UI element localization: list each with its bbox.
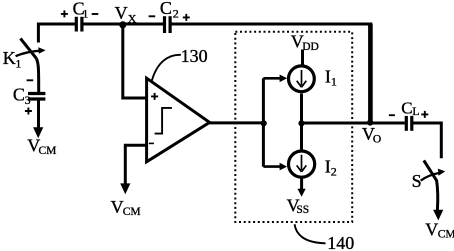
K1 label [3, 48, 22, 70]
capacitor C1 [76, 17, 82, 32]
wire I1 to I2 [300, 94, 303, 151]
wire VCM to op-amp minus input [125, 145, 148, 184]
switch S blade [424, 160, 438, 210]
svg-text:2: 2 [331, 165, 337, 179]
op-amp hysteresis symbol [155, 108, 172, 134]
VSS label [287, 196, 310, 216]
svg-text:X: X [128, 12, 137, 26]
wire I2 to VSS [300, 178, 303, 189]
svg-text:140: 140 [327, 233, 354, 251]
CL polarity plus [421, 111, 428, 118]
switch K1 blade [20, 38, 36, 58]
svg-text:130: 130 [181, 46, 208, 66]
svg-text:CM: CM [123, 206, 141, 218]
arrowhead to VCM (op-amp) [120, 183, 130, 194]
op-amp plus input mark [151, 93, 158, 100]
wire current sources to CL [302, 122, 405, 125]
wire C2 across to top-right corner [172, 23, 373, 26]
current source I2 [289, 151, 315, 177]
svg-text:1: 1 [82, 6, 88, 20]
svg-text:C: C [160, 0, 172, 18]
VDD label [291, 32, 319, 53]
capacitor C2 [165, 16, 171, 33]
node VX dot [119, 21, 126, 28]
wire CL to switch S [413, 123, 442, 158]
svg-text:CM: CM [39, 145, 57, 157]
C3 polarity minus [27, 79, 34, 81]
arrowhead to VSS [298, 189, 306, 197]
svg-text:V: V [111, 197, 124, 217]
svg-text:3: 3 [25, 93, 31, 107]
C2 label [160, 0, 179, 20]
svg-text:C: C [13, 85, 25, 105]
svg-text:K: K [3, 48, 16, 68]
svg-text:1: 1 [331, 74, 337, 88]
svg-text:SS: SS [296, 204, 309, 216]
dashed box 140 [235, 32, 352, 222]
VX label [115, 3, 137, 25]
op-amp minus input mark [149, 142, 154, 144]
control arrow into I1 [263, 77, 280, 80]
svg-text:L: L [412, 104, 419, 118]
VCM label (C3) [27, 135, 56, 156]
C1 polarity plus [61, 10, 68, 17]
C1 label [73, 0, 89, 20]
wire down to node VO [368, 24, 373, 122]
node VO branch dot [298, 120, 304, 126]
svg-text:C: C [401, 99, 412, 118]
capacitor C3 [28, 94, 45, 100]
capacitor CL [406, 116, 412, 131]
wire switch K1 to C3 [37, 59, 39, 93]
svg-text:1: 1 [15, 56, 21, 70]
svg-text:S: S [412, 171, 422, 191]
VCM label (op-amp) [111, 197, 141, 218]
wire VX to op-amp plus input [123, 26, 148, 98]
I1 label [325, 66, 337, 88]
node VO dot [367, 120, 373, 126]
C2 polarity minus [149, 15, 156, 17]
arrowhead to VCM (C3) [33, 127, 43, 138]
VCM label (S) [425, 220, 454, 241]
op-amp 130 [147, 78, 210, 162]
svg-text:DD: DD [302, 41, 319, 53]
control branch vertical wire [262, 78, 265, 166]
svg-text:V: V [115, 3, 128, 23]
CL polarity minus [389, 114, 395, 116]
svg-text:CM: CM [438, 228, 454, 240]
C2 polarity plus [183, 14, 190, 21]
control arrow into I2 [263, 165, 280, 168]
svg-text:V: V [425, 220, 438, 240]
C3 label [13, 85, 31, 107]
wire op-amp output to control node [208, 121, 264, 124]
wire top-left corner to C1 [38, 24, 75, 43]
C1 polarity minus [92, 13, 99, 15]
switch K1 arrow [16, 51, 40, 57]
CL label [401, 99, 419, 119]
current source I1 [289, 66, 315, 92]
svg-text:2: 2 [173, 6, 179, 20]
I2 label [325, 156, 337, 178]
svg-text:O: O [373, 134, 381, 146]
arrowhead to VCM (S) [433, 210, 443, 221]
wire C3 to VCM [37, 99, 40, 129]
label 140 leader [295, 224, 326, 243]
wire VDD to I1 [301, 50, 304, 66]
wire C1 to C2 [83, 23, 163, 26]
switch S arrow [421, 173, 440, 181]
C3 polarity plus [25, 108, 32, 115]
label 130 leader [152, 55, 181, 81]
control node dot [261, 120, 267, 126]
VO label [362, 124, 381, 146]
